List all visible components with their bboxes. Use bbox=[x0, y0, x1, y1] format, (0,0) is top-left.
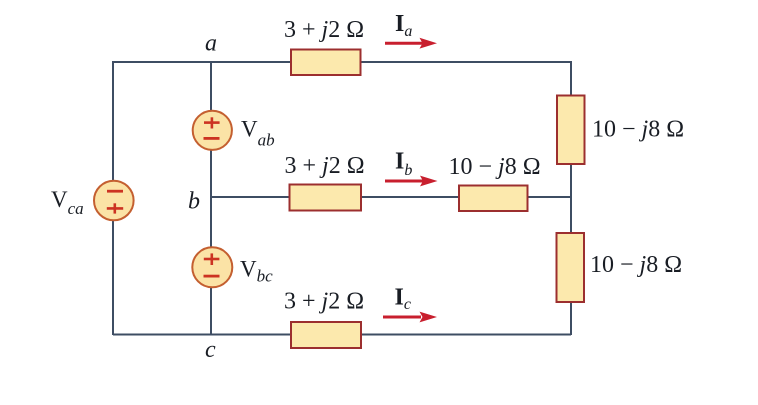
svg-text:10 − j8 Ω: 10 − j8 Ω bbox=[449, 154, 541, 180]
svg-text:a: a bbox=[205, 31, 217, 57]
resistor 3+j2 top (line a) bbox=[291, 50, 361, 76]
svg-text:Vbc: Vbc bbox=[240, 257, 273, 286]
svg-text:3 + j2 Ω: 3 + j2 Ω bbox=[284, 17, 364, 43]
wire middle horizontal b-line bbox=[211, 196, 571, 198]
source V_ca circle bbox=[94, 181, 134, 221]
svg-text:Ia: Ia bbox=[395, 11, 412, 40]
wire node b to c vertical bbox=[210, 197, 212, 335]
svg-text:Ib: Ib bbox=[395, 149, 412, 180]
current arrow I_c bbox=[383, 312, 437, 323]
current arrow I_a bbox=[385, 38, 437, 49]
resistor 10-j8 right upper bbox=[557, 96, 585, 165]
resistor 3+j2 bottom (line c) bbox=[291, 322, 361, 348]
wire node a vertical bbox=[210, 61, 212, 197]
source V_ab circle bbox=[193, 111, 232, 150]
svg-text:b: b bbox=[188, 189, 200, 215]
svg-text:Ic: Ic bbox=[395, 285, 411, 314]
source V_bc circle bbox=[192, 247, 232, 287]
resistor 10-j8 middle (line b) bbox=[459, 186, 528, 212]
resistor 3+j2 middle (line b) bbox=[290, 185, 362, 211]
svg-text:c: c bbox=[205, 337, 216, 363]
svg-text:10 − j8 Ω: 10 − j8 Ω bbox=[592, 116, 684, 142]
resistor 10-j8 right lower bbox=[557, 233, 585, 302]
svg-text:Vca: Vca bbox=[51, 187, 84, 218]
wire left vertical bbox=[112, 61, 114, 335]
wire top horizontal a-line bbox=[113, 61, 571, 63]
svg-text:3 + j2 Ω: 3 + j2 Ω bbox=[284, 289, 364, 315]
svg-text:3 + j2 Ω: 3 + j2 Ω bbox=[285, 153, 365, 179]
svg-text:10 − j8 Ω: 10 − j8 Ω bbox=[590, 252, 682, 278]
svg-text:Vab: Vab bbox=[241, 117, 275, 150]
wire right vertical bbox=[570, 61, 572, 335]
current arrow I_b bbox=[385, 176, 438, 187]
wire bottom horizontal c-line bbox=[113, 334, 571, 336]
